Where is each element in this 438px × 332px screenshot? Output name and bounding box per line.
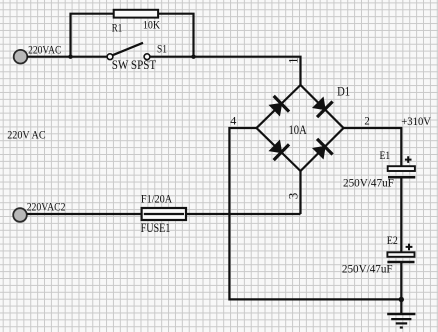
plus sign xyxy=(405,156,412,163)
wire xyxy=(344,128,402,166)
switch S1 xyxy=(107,43,150,60)
junction xyxy=(68,55,72,59)
wire xyxy=(400,262,402,300)
svg-text:SW SPST: SW SPST xyxy=(112,58,157,72)
svg-text:220VAC2: 220VAC2 xyxy=(27,199,66,213)
terminal 220VAC xyxy=(14,50,28,64)
svg-text:FUSE1: FUSE1 xyxy=(141,221,171,235)
svg-text:S1: S1 xyxy=(157,42,167,56)
plus sign xyxy=(406,244,413,251)
svg-text:D1: D1 xyxy=(337,84,350,99)
wire xyxy=(400,177,402,252)
svg-text:4: 4 xyxy=(230,113,236,127)
terminal 220VAC2 xyxy=(13,208,27,222)
svg-text:250V/47uF: 250V/47uF xyxy=(342,262,393,276)
svg-text:1: 1 xyxy=(286,58,300,64)
svg-text:3: 3 xyxy=(286,193,301,200)
diode D1a xyxy=(267,95,290,119)
svg-text:220V AC: 220V AC xyxy=(7,127,45,141)
wire xyxy=(299,171,301,214)
diode D1b xyxy=(310,94,334,118)
svg-text:2: 2 xyxy=(364,114,369,128)
svg-text:E2: E2 xyxy=(387,233,398,247)
wire xyxy=(229,128,401,299)
svg-text:E1: E1 xyxy=(380,148,391,162)
ground xyxy=(387,300,415,328)
svg-text:10K: 10K xyxy=(143,18,160,32)
svg-text:F1/20A: F1/20A xyxy=(141,191,173,205)
wire xyxy=(71,14,194,57)
wire xyxy=(27,56,107,58)
bridge rectifier D1 xyxy=(257,85,344,171)
svg-text:R1: R1 xyxy=(112,21,123,35)
diode D1d xyxy=(310,138,334,162)
resistor R1 xyxy=(114,10,158,18)
junction xyxy=(191,55,195,59)
capacitor E1 xyxy=(388,166,416,177)
wire xyxy=(27,213,301,215)
fuse F1 xyxy=(142,208,186,220)
svg-text:+310V: +310V xyxy=(401,116,431,128)
wire xyxy=(144,213,184,215)
junction xyxy=(399,297,404,302)
svg-text:10A: 10A xyxy=(289,122,308,137)
capacitor E2 xyxy=(387,252,414,262)
wire xyxy=(150,57,301,85)
diode D1c xyxy=(267,137,290,161)
svg-text:220VAC: 220VAC xyxy=(28,45,62,57)
svg-text:250V/47uF: 250V/47uF xyxy=(343,176,394,190)
